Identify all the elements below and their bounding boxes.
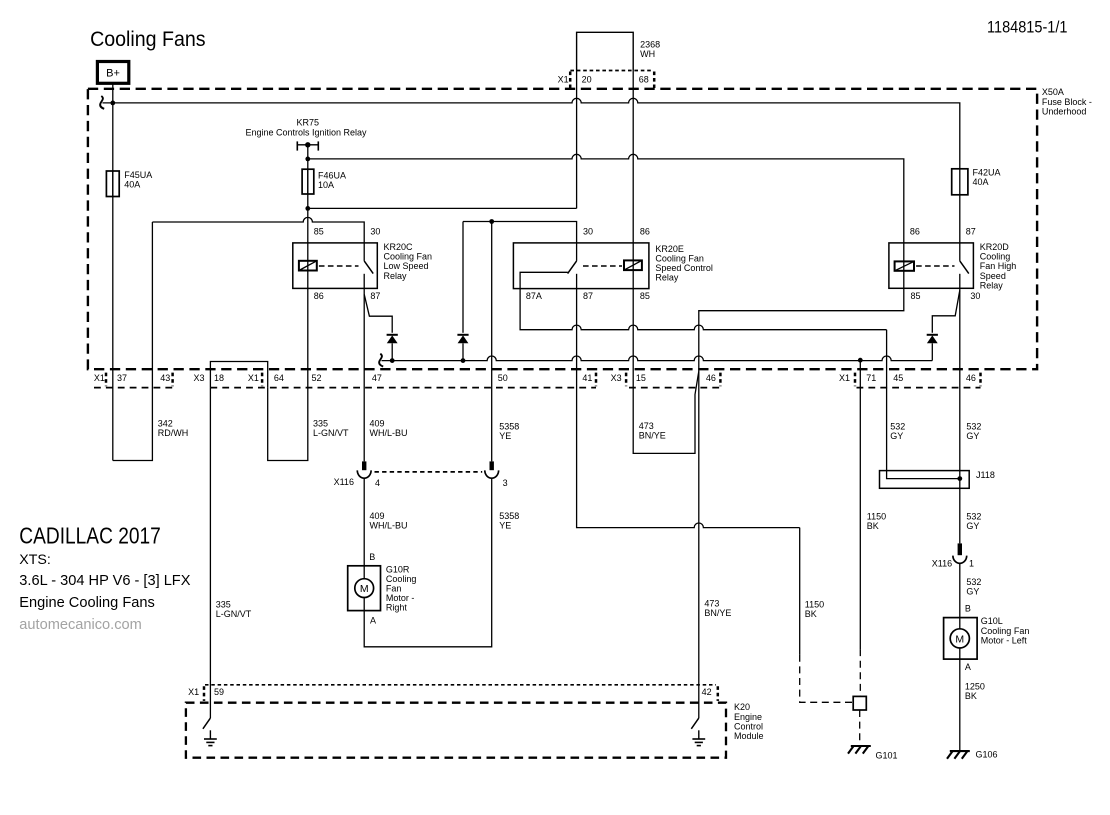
module K20 separators xyxy=(204,686,718,701)
label wire 473 BN/YE upper xyxy=(639,421,666,441)
label X1 pins 20 68 xyxy=(558,74,649,84)
wire diode D3 to bus xyxy=(931,343,933,360)
relay KR20E switch xyxy=(568,243,577,289)
svg-text:Module: Module xyxy=(734,731,764,741)
svg-text:532: 532 xyxy=(966,577,981,587)
svg-text:Cooling: Cooling xyxy=(980,252,1011,262)
svg-text:X3: X3 xyxy=(194,373,205,383)
svg-text:automecanico.com: automecanico.com xyxy=(19,617,142,633)
module K20 dashed box xyxy=(186,703,726,758)
label wire 532 GY below J118 xyxy=(966,512,981,532)
connector X1 separator left xyxy=(569,72,572,89)
svg-text:KR20C: KR20C xyxy=(384,242,414,252)
relay KR20E box xyxy=(513,243,649,289)
wire 1150 BK left drop xyxy=(799,528,801,655)
svg-text:YE: YE xyxy=(499,431,511,441)
svg-text:532: 532 xyxy=(966,512,981,522)
wire ignition feed to KR20D 86 xyxy=(308,154,904,243)
svg-text:87: 87 xyxy=(370,291,380,301)
svg-text:30: 30 xyxy=(583,226,593,236)
sheet number text xyxy=(987,18,1068,37)
motor G10R symbol xyxy=(355,566,374,611)
label wire 532 GY pin45 xyxy=(890,421,905,441)
connector X116 pin 3 xyxy=(485,461,499,478)
svg-text:YE: YE xyxy=(499,521,511,531)
relay KR20D pin labels xyxy=(910,226,981,301)
wire X116 1 to motor G10L xyxy=(959,563,961,617)
caption engine cooling fans xyxy=(19,595,154,611)
wire splice to G101 xyxy=(859,710,861,744)
motor G10R label xyxy=(386,564,417,612)
connector X116 labels xyxy=(334,477,508,488)
label motor terminal A right fan xyxy=(370,616,376,626)
svg-text:KR75: KR75 xyxy=(297,118,320,128)
svg-text:Fan High: Fan High xyxy=(980,261,1017,271)
caption engine xyxy=(19,573,190,589)
relay KR20E coil xyxy=(624,260,642,270)
svg-text:1150: 1150 xyxy=(867,512,886,522)
node J118 junction xyxy=(957,476,962,481)
svg-text:BN/YE: BN/YE xyxy=(639,431,666,441)
svg-text:20: 20 xyxy=(582,74,592,84)
svg-text:64: 64 xyxy=(274,373,284,383)
wire pin43 feed to KR20C 30 xyxy=(152,217,364,243)
label wire 1250 BK xyxy=(965,682,985,702)
svg-text:F45UA: F45UA xyxy=(124,170,152,180)
svg-text:BK: BK xyxy=(805,609,817,619)
svg-text:X1: X1 xyxy=(188,687,199,697)
diode D1 xyxy=(387,335,398,344)
diode D3 xyxy=(927,335,938,344)
svg-text:86: 86 xyxy=(640,226,650,236)
svg-text:Speed: Speed xyxy=(980,271,1006,281)
svg-text:WH/L-BU: WH/L-BU xyxy=(370,428,408,438)
fuse F42UA xyxy=(952,169,968,195)
wire F46UA to connector X1 pin 20 xyxy=(308,207,577,209)
svg-text:15: 15 xyxy=(636,373,646,383)
wire KR20D 30 diode branch xyxy=(932,290,960,333)
module K20 pin labels xyxy=(188,687,712,697)
splice pack J118 xyxy=(880,471,970,489)
svg-text:532: 532 xyxy=(966,421,981,431)
label wire 5358 YE lower xyxy=(499,511,519,531)
svg-text:B+: B+ xyxy=(106,68,120,80)
wire diode D2 to bus xyxy=(462,343,464,360)
wire F46UA down to KR20C 85 xyxy=(307,169,309,243)
svg-text:WH/L-BU: WH/L-BU xyxy=(370,521,408,531)
wire diode D2 branch xyxy=(462,222,464,333)
svg-text:40A: 40A xyxy=(973,177,989,187)
node B+ bus junction xyxy=(110,101,115,106)
svg-text:10A: 10A xyxy=(318,180,334,190)
svg-text:XTS:: XTS: xyxy=(19,552,51,568)
wire 342 RD/WH loop xyxy=(113,222,153,461)
svg-text:Relay: Relay xyxy=(655,273,679,283)
relay KR20D name label xyxy=(980,242,1017,290)
relay KR75 label xyxy=(245,118,367,138)
fuse F45UA xyxy=(106,171,119,197)
label wire 409 WH/L-BU upper xyxy=(370,419,408,439)
svg-text:Engine Cooling Fans: Engine Cooling Fans xyxy=(19,595,154,611)
svg-text:X1: X1 xyxy=(839,373,850,383)
svg-text:Fuse Block -: Fuse Block - xyxy=(1042,97,1092,107)
wire 335 L-GN/VT loop xyxy=(268,288,308,460)
node diode D2 bus junction xyxy=(461,358,466,363)
svg-text:Motor -: Motor - xyxy=(386,593,415,603)
svg-text:Speed Control: Speed Control xyxy=(655,263,713,273)
relay KR20D coil xyxy=(895,261,914,270)
svg-text:52: 52 xyxy=(312,373,322,383)
svg-text:Fan: Fan xyxy=(386,583,402,593)
motor G10L label xyxy=(981,616,1030,645)
wire pin 71 dashed to splice xyxy=(859,649,861,696)
svg-text:409: 409 xyxy=(370,419,385,429)
fuse F46UA label xyxy=(318,171,346,191)
svg-text:F42UA: F42UA xyxy=(973,167,1001,177)
svg-text:RD/WH: RD/WH xyxy=(158,428,189,438)
svg-text:50: 50 xyxy=(498,373,508,383)
svg-text:68: 68 xyxy=(639,74,649,84)
label wire 532 GY below X116 xyxy=(966,577,981,597)
svg-text:85: 85 xyxy=(911,291,921,301)
label wire 1150 BK left xyxy=(805,600,824,620)
wire KR75 to F46UA xyxy=(307,145,309,195)
node F46UA output junction xyxy=(305,206,310,211)
wire KR20E 30 feed xyxy=(463,222,577,243)
svg-text:X116: X116 xyxy=(932,558,952,568)
relay KR75 output symbol xyxy=(297,141,318,150)
ground G106 xyxy=(947,751,970,759)
wire KR20E 87 to 1150 BK xyxy=(577,289,800,528)
svg-text:47: 47 xyxy=(372,373,382,383)
svg-text:1184815-1/1: 1184815-1/1 xyxy=(987,18,1068,37)
svg-text:30: 30 xyxy=(970,291,980,301)
svg-text:532: 532 xyxy=(890,421,905,431)
svg-text:1150: 1150 xyxy=(805,600,824,610)
wire continuation squiggle at B+ bus xyxy=(100,96,104,109)
svg-text:85: 85 xyxy=(640,291,650,301)
label motor terminal B right fan xyxy=(369,552,375,562)
svg-text:3: 3 xyxy=(503,478,508,488)
svg-text:BK: BK xyxy=(965,691,977,701)
node pin 71 bus junction xyxy=(858,358,863,363)
svg-text:1: 1 xyxy=(969,558,974,568)
wire KR20D 85 to node 473 xyxy=(699,288,904,718)
caption automecanico xyxy=(19,617,142,633)
label wire 473 BN/YE lower xyxy=(704,599,731,619)
ground internal K20 pin 42 xyxy=(692,730,705,745)
relay KR20C switch xyxy=(364,243,373,289)
relay KR20C name label xyxy=(384,242,433,281)
wire motor G10L to G106 xyxy=(959,659,961,751)
svg-text:43: 43 xyxy=(160,373,170,383)
label motor terminal A left fan xyxy=(965,662,971,672)
wire pin 71 1150 BK xyxy=(859,360,861,649)
wire KR20E 87A to pin 45 xyxy=(520,289,887,330)
relay KR20E dashed link xyxy=(583,265,622,267)
svg-text:Right: Right xyxy=(386,602,408,612)
wire pin 45 drop to J118 xyxy=(887,330,960,479)
svg-text:3.6L - 304 HP V6 - [3] LFX: 3.6L - 304 HP V6 - [3] LFX xyxy=(19,573,190,589)
wire pin 50 drop to X116 pin 3 xyxy=(491,222,493,462)
svg-text:59: 59 xyxy=(214,687,224,697)
svg-text:BK: BK xyxy=(867,521,879,531)
svg-text:87A: 87A xyxy=(526,291,542,301)
module K20 dotted connector edge xyxy=(205,684,716,686)
svg-text:KR20E: KR20E xyxy=(655,244,684,254)
svg-text:335: 335 xyxy=(216,599,231,609)
relay KR20C box xyxy=(293,243,378,289)
svg-text:X3: X3 xyxy=(611,373,622,383)
svg-text:Cooling Fan: Cooling Fan xyxy=(655,254,704,264)
label wire 5358 YE upper xyxy=(499,421,519,441)
svg-text:40A: 40A xyxy=(124,179,140,189)
wire fuse block jumper pins 18 64 xyxy=(210,362,267,388)
connector X1 dotted edge xyxy=(570,70,652,72)
fuse F42UA label xyxy=(973,167,1001,187)
module K20 switch pin 42 xyxy=(691,718,699,729)
svg-text:B: B xyxy=(965,604,971,614)
svg-text:45: 45 xyxy=(893,373,903,383)
svg-text:42: 42 xyxy=(702,687,712,697)
motor G10R box xyxy=(348,566,381,611)
svg-text:WH: WH xyxy=(640,49,655,59)
svg-text:86: 86 xyxy=(314,291,324,301)
wire B+ drop to F45UA xyxy=(112,83,114,197)
relay KR20D switch xyxy=(960,243,969,288)
svg-text:Cooling Fan: Cooling Fan xyxy=(384,252,433,262)
fuse F45UA label xyxy=(124,170,152,190)
relay KR20D coil wires xyxy=(903,243,905,288)
svg-text:B: B xyxy=(369,552,375,562)
svg-text:1250: 1250 xyxy=(965,682,985,692)
svg-text:GY: GY xyxy=(966,431,979,441)
svg-text:46: 46 xyxy=(966,373,976,383)
svg-text:41: 41 xyxy=(582,373,592,383)
fuse block X50A dashed border xyxy=(88,89,1037,369)
svg-text:A: A xyxy=(370,616,376,626)
wire 1150 BK left dashed xyxy=(800,655,853,703)
node KR75 ignition junction xyxy=(305,157,310,162)
relay KR20D dashed link xyxy=(916,265,954,267)
svg-text:F46UA: F46UA xyxy=(318,171,346,181)
svg-text:5358: 5358 xyxy=(499,421,519,431)
svg-text:L-GN/VT: L-GN/VT xyxy=(313,428,349,438)
svg-text:409: 409 xyxy=(370,511,385,521)
svg-text:86: 86 xyxy=(910,226,920,236)
caption CADILLAC 2017 xyxy=(19,523,161,549)
svg-text:Motor - Left: Motor - Left xyxy=(981,635,1028,645)
svg-text:GY: GY xyxy=(890,431,903,441)
motor G10L symbol xyxy=(950,618,969,660)
svg-text:L-GN/VT: L-GN/VT xyxy=(216,609,252,619)
ground internal K20 pin 59 xyxy=(204,730,217,745)
wire diode D1 to bus xyxy=(391,343,393,360)
label motor terminal B left fan xyxy=(965,604,971,614)
wire motor G10R return loop xyxy=(364,479,492,647)
node pin 50 junction xyxy=(489,219,494,224)
fuse F46UA xyxy=(302,169,314,194)
svg-text:Cooling Fan: Cooling Fan xyxy=(981,626,1030,636)
svg-text:Cooling Fans: Cooling Fans xyxy=(90,28,206,51)
connector X116 pin 1 xyxy=(953,543,967,563)
connector X1 separator right xyxy=(653,72,656,89)
svg-text:KR20D: KR20D xyxy=(980,242,1010,252)
relay KR20D box xyxy=(889,243,974,288)
svg-text:X1: X1 xyxy=(248,373,259,383)
label wire 1150 BK right xyxy=(867,512,886,532)
svg-text:GY: GY xyxy=(966,587,979,597)
svg-text:M: M xyxy=(955,633,964,645)
connector row separators xyxy=(106,373,981,387)
wire continuation squiggle at diode bus xyxy=(379,354,383,367)
wire X1 pin 68 drop to KR20E 86 xyxy=(632,71,634,244)
svg-text:A: A xyxy=(965,662,971,672)
module K20 name label xyxy=(734,702,764,741)
fuse block X50A label xyxy=(1042,87,1092,116)
svg-text:71: 71 xyxy=(866,373,876,383)
title text xyxy=(90,28,206,51)
svg-text:J118: J118 xyxy=(976,470,995,480)
svg-text:GY: GY xyxy=(966,521,979,531)
wire F42UA to KR20D 87 xyxy=(959,169,961,243)
svg-text:X1: X1 xyxy=(558,74,569,84)
svg-text:Relay: Relay xyxy=(980,280,1004,290)
svg-text:2368: 2368 xyxy=(640,39,660,49)
svg-text:87: 87 xyxy=(583,291,593,301)
svg-text:Cooling: Cooling xyxy=(386,574,417,584)
svg-text:K20: K20 xyxy=(734,702,750,712)
label wire 532 GY pin46 xyxy=(966,421,981,441)
svg-text:18: 18 xyxy=(214,373,224,383)
relay KR20C coil wires xyxy=(307,243,309,288)
label wire 335 L-GN/VT upper xyxy=(313,419,349,439)
wire X116 4 to motor G10R xyxy=(363,479,365,566)
connector row lower dashed edge xyxy=(94,387,981,389)
connector row pin labels xyxy=(94,373,976,383)
wire KR20C 87 diode branch xyxy=(364,294,392,333)
relay KR20E pin labels xyxy=(526,226,650,301)
connector X116 pin 1 labels xyxy=(932,558,974,568)
svg-text:342: 342 xyxy=(158,419,173,429)
label wire 409 WH/L-BU lower xyxy=(370,511,408,531)
motor G10L box xyxy=(944,618,978,660)
svg-text:473: 473 xyxy=(704,599,719,609)
svg-text:X1: X1 xyxy=(94,373,105,383)
relay KR20E coil wires xyxy=(632,243,634,289)
svg-text:Low Speed: Low Speed xyxy=(384,261,429,271)
svg-text:Engine: Engine xyxy=(734,712,762,722)
relay KR20C dashed link xyxy=(319,265,359,267)
svg-text:M: M xyxy=(360,583,369,595)
ground G101 xyxy=(848,746,871,754)
svg-text:BN/YE: BN/YE xyxy=(704,608,731,618)
ground G106 label xyxy=(976,750,998,760)
svg-text:5358: 5358 xyxy=(499,511,519,521)
wire KR20C 87 to X116 pin 4 xyxy=(363,288,365,461)
wire KR20D 30 to G10L xyxy=(959,288,961,543)
wire diode suppression bus xyxy=(382,356,933,361)
relay KR20E 87A internal wire xyxy=(520,272,568,288)
connector X116 dashed link xyxy=(375,471,483,473)
B+ battery feed symbol xyxy=(97,62,128,84)
svg-text:Engine Controls Ignition Relay: Engine Controls Ignition Relay xyxy=(245,127,367,137)
connector X116 pin 4 xyxy=(357,461,371,478)
svg-text:85: 85 xyxy=(314,226,324,236)
relay KR20C pin labels xyxy=(314,226,381,301)
svg-text:4: 4 xyxy=(375,478,380,488)
module K20 switch pin 59 xyxy=(203,718,211,729)
wire F45UA to pin 37 xyxy=(112,171,114,461)
svg-text:Underhood: Underhood xyxy=(1042,106,1087,116)
svg-text:X50A: X50A xyxy=(1042,87,1064,97)
wire pin 18 down to K20 59 xyxy=(209,388,211,718)
svg-text:G101: G101 xyxy=(876,750,898,760)
svg-text:Control: Control xyxy=(734,721,763,731)
svg-text:46: 46 xyxy=(706,373,716,383)
svg-text:G10R: G10R xyxy=(386,564,410,574)
svg-text:473: 473 xyxy=(639,421,654,431)
wire B+ bus y=103 xyxy=(103,98,960,169)
label wire 335 L-GN/VT lower xyxy=(216,599,252,619)
label 2368 WH xyxy=(640,39,660,59)
svg-text:CADILLAC 2017: CADILLAC 2017 xyxy=(19,523,161,549)
svg-text:37: 37 xyxy=(117,373,127,383)
diode D2 xyxy=(457,335,468,344)
svg-text:30: 30 xyxy=(370,226,380,236)
svg-text:87: 87 xyxy=(966,226,976,236)
ground G101 label xyxy=(876,750,898,760)
connector box 2368 WH xyxy=(577,32,634,70)
splice pack J118 label xyxy=(976,470,995,480)
wire KR20E 85 to pin 15 loop xyxy=(633,289,699,454)
svg-text:G10L: G10L xyxy=(981,616,1003,626)
svg-text:Relay: Relay xyxy=(384,271,408,281)
splice S-point xyxy=(853,696,866,710)
wire X1 pin 20 drop xyxy=(576,71,578,209)
relay KR20C coil xyxy=(299,261,317,271)
relay KR20E name label xyxy=(655,244,713,283)
caption XTS xyxy=(19,552,51,568)
svg-text:X116: X116 xyxy=(334,477,354,487)
node diode D1 bus junction xyxy=(390,358,395,363)
label wire 342 RD/WH xyxy=(158,419,189,439)
svg-text:335: 335 xyxy=(313,419,328,429)
svg-text:G106: G106 xyxy=(976,750,998,760)
